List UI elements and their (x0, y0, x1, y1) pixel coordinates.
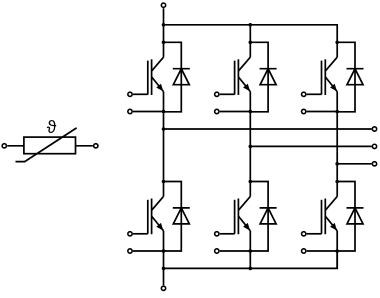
junction collector T2/D2 (249, 41, 253, 45)
wire leg 3 midpoint (336, 112, 338, 182)
wire leg1 collector drop (163, 25, 165, 43)
transistor T3 (IGBT) (322, 42, 338, 112)
diode D1 (164, 42, 190, 112)
junction DC+ / leg 2 (249, 23, 253, 27)
wire leg 2 emitter to DC- rail (249, 251, 251, 268)
junction collector T5/D5 (249, 180, 253, 184)
diode D2 (250, 42, 276, 112)
transistor T1 (IGBT) (148, 42, 164, 112)
junction collector T6/D6 (335, 180, 339, 184)
junction emitter T4/D4 (162, 249, 166, 253)
diode D6 (337, 182, 363, 252)
terminal aux emitter T5 (215, 249, 251, 253)
junction phase V (249, 145, 253, 149)
junction collector T1/D1 (162, 41, 166, 45)
junction DC- / leg 2 (249, 267, 253, 271)
terminal gate T1 (128, 92, 148, 96)
terminal aux emitter T6 (302, 249, 338, 253)
junction emitter T5/D5 (249, 249, 253, 253)
transistor T5 (IGBT) (235, 182, 251, 252)
junction DC- / leg 1 (162, 267, 166, 271)
terminal thermistor pin 2 (76, 144, 98, 148)
diode D5 (250, 182, 276, 252)
junction emitter T6/D6 (335, 249, 339, 253)
terminal gate T4 (128, 232, 148, 236)
junction emitter T1/D1 (162, 110, 166, 114)
terminal aux emitter T4 (128, 249, 164, 253)
junction phase U (162, 127, 166, 131)
junction phase W (335, 162, 339, 166)
terminal gate T3 (302, 92, 322, 96)
wire leg2 collector drop (249, 25, 251, 43)
junction collector T3/D3 (335, 41, 339, 45)
thermistor R1 (NTC) (16, 128, 77, 162)
terminal thermistor pin 1 (2, 144, 24, 148)
terminal aux emitter T2 (215, 109, 251, 113)
transistor T2 (IGBT) (235, 42, 251, 112)
transistor T6 (IGBT) (322, 182, 338, 252)
wire leg 2 midpoint (249, 112, 251, 182)
junction emitter T2/D2 (249, 110, 253, 114)
terminal phase U (372, 127, 376, 131)
terminal aux emitter T3 (302, 109, 338, 113)
wire DC+ rail (164, 25, 338, 43)
wire phase V (250, 145, 371, 147)
terminal gate T2 (215, 92, 235, 96)
terminal aux emitter T1 (128, 109, 164, 113)
junction collector T4/D4 (162, 180, 166, 184)
junction DC+ / leg 1 (162, 23, 166, 27)
transistor T4 (IGBT) (148, 182, 164, 252)
terminal DC+ (161, 3, 165, 25)
svg-text:ϑ: ϑ (47, 117, 57, 137)
diode D4 (164, 182, 190, 252)
terminal DC- (161, 268, 165, 290)
wire leg 1 midpoint (163, 112, 165, 182)
wire leg 3 emitter to DC- rail (336, 251, 338, 268)
wire leg 1 emitter to DC- rail (163, 251, 165, 268)
diode D3 (337, 42, 363, 112)
wire phase U (164, 128, 372, 130)
wire DC- rail (164, 251, 338, 268)
junction emitter T3/D3 (335, 110, 339, 114)
terminal phase W (372, 162, 376, 166)
terminal phase V (372, 144, 376, 148)
terminal gate T5 (215, 232, 235, 236)
wire phase W (337, 163, 371, 165)
terminal gate T6 (302, 232, 322, 236)
